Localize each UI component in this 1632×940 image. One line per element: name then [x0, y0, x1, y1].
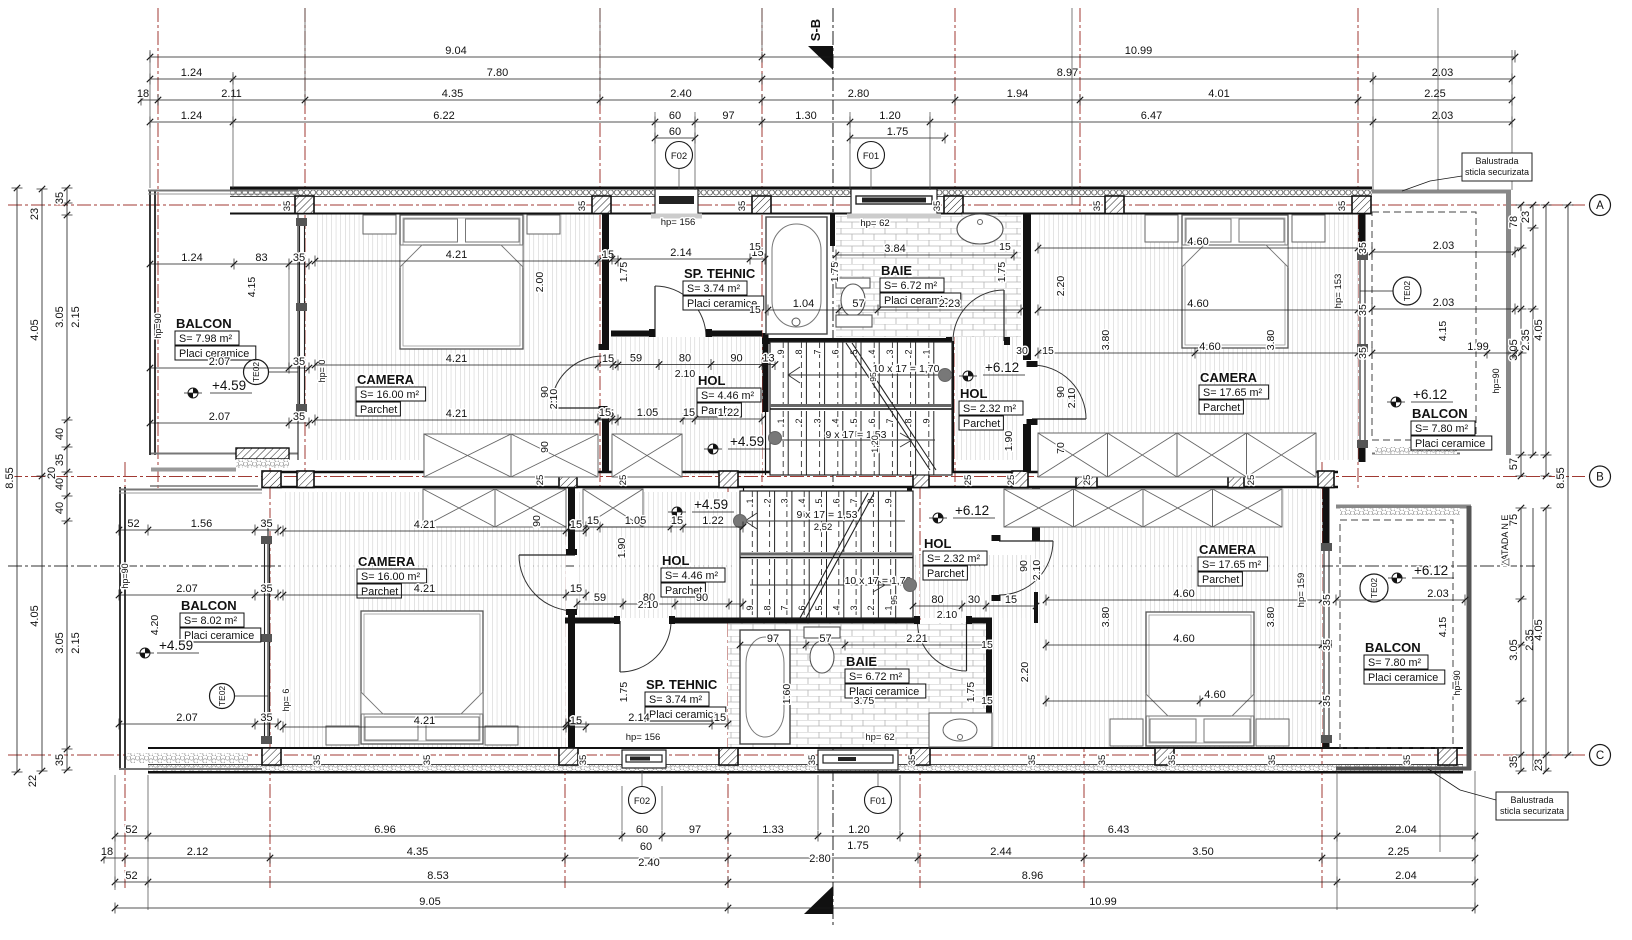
- svg-text:52: 52: [125, 824, 137, 836]
- dims hol lower: [586, 526, 743, 528]
- svg-text:6.43: 6.43: [1108, 824, 1129, 836]
- svg-text:2.44: 2.44: [990, 846, 1011, 858]
- svg-text:1.24: 1.24: [181, 67, 202, 79]
- svg-text:10 x 17 = 1,70: 10 x 17 = 1,70: [873, 363, 940, 375]
- svg-text:9 x 17 = 1,53: 9 x 17 = 1,53: [796, 509, 857, 521]
- svg-text:9: 9: [922, 418, 932, 423]
- floor baie lower (brick): [728, 623, 992, 748]
- wardrobe upper hol: [612, 434, 682, 477]
- svg-text:90: 90: [539, 441, 551, 453]
- svg-text:3.80: 3.80: [1265, 607, 1277, 628]
- svg-text:35: 35: [1321, 594, 1333, 606]
- svg-text:2.04: 2.04: [1395, 824, 1416, 836]
- svg-text:35: 35: [578, 755, 589, 766]
- svg-text:1: 1: [776, 418, 786, 423]
- svg-text:2.00: 2.00: [534, 272, 546, 293]
- svg-text:1.24: 1.24: [181, 252, 202, 264]
- floor hol lower: [577, 492, 740, 618]
- svg-text:2: 2: [794, 418, 804, 423]
- dims baie lower: [740, 644, 989, 646]
- svg-text:1.94: 1.94: [1007, 88, 1028, 100]
- svg-text:BALCON: BALCON: [176, 316, 232, 331]
- svg-text:Placi ceramice: Placi ceramice: [184, 630, 254, 642]
- svg-text:25: 25: [1082, 475, 1093, 486]
- door sp.tehnic lower: [619, 621, 621, 672]
- te02 circle upper-right: [1393, 277, 1421, 305]
- svg-text:22: 22: [27, 775, 39, 787]
- svg-text:2.03: 2.03: [1433, 240, 1454, 252]
- stair newel dots upper: [769, 432, 782, 445]
- svg-text:4.05: 4.05: [1533, 319, 1545, 340]
- elevation +4.59 lower-left: [145, 648, 150, 653]
- svg-text:1.05: 1.05: [637, 407, 658, 419]
- svg-text:1.20: 1.20: [879, 110, 900, 122]
- svg-text:2.10: 2.10: [1066, 388, 1078, 409]
- floor camera upper-right: [1038, 214, 1358, 460]
- svg-text:1,20: 1,20: [870, 435, 880, 453]
- svg-text:2: 2: [762, 498, 772, 503]
- svg-text:2.12: 2.12: [187, 846, 208, 858]
- svg-text:2.40: 2.40: [670, 88, 691, 100]
- svg-text:S-B: S-B: [808, 19, 823, 41]
- svg-text:1.30: 1.30: [795, 110, 816, 122]
- svg-text:4.15: 4.15: [246, 277, 258, 298]
- svg-text:S= 7.80 m²: S= 7.80 m²: [1415, 423, 1469, 435]
- axis line (facade) lower unit: [8, 565, 1535, 567]
- stair arrows upper: [788, 374, 948, 376]
- dims sp.tehnic lower: [566, 723, 728, 725]
- svg-text:4.20: 4.20: [149, 615, 161, 636]
- svg-text:hp= 6: hp= 6: [281, 689, 291, 712]
- wardrobes lower-left camera: [423, 489, 495, 527]
- svg-text:4.21: 4.21: [414, 519, 435, 531]
- elevation +4.59 upper hol: [713, 444, 718, 449]
- svg-text:15: 15: [683, 407, 695, 419]
- svg-text:B: B: [1596, 472, 1604, 484]
- svg-text:2.03: 2.03: [1433, 297, 1454, 309]
- svg-text:hp= 156: hp= 156: [661, 217, 696, 228]
- window wall balcony lower-left: [264, 540, 266, 742]
- svg-text:9: 9: [883, 498, 893, 503]
- svg-text:S= 6.72 m²: S= 6.72 m²: [884, 280, 938, 292]
- svg-text:3.80: 3.80: [1100, 330, 1112, 351]
- svg-text:1: 1: [883, 605, 893, 610]
- toilet upper: [836, 278, 870, 288]
- svg-text:30: 30: [968, 594, 980, 606]
- svg-text:+4.59: +4.59: [730, 434, 764, 449]
- svg-text:S= 6.72 m²: S= 6.72 m²: [849, 671, 903, 683]
- svg-text:SP. TEHNIC: SP. TEHNIC: [684, 266, 756, 281]
- svg-text:3: 3: [780, 498, 790, 503]
- svg-text:1.75: 1.75: [618, 682, 630, 703]
- svg-text:35: 35: [1027, 755, 1038, 766]
- svg-text:4.60: 4.60: [1187, 298, 1208, 310]
- grid line B: [8, 476, 1585, 478]
- elevation +4.59 upper-left: [193, 388, 198, 393]
- circle F02 bottom: [629, 787, 656, 814]
- svg-text:3: 3: [812, 418, 822, 423]
- svg-text:2.10: 2.10: [1031, 560, 1043, 581]
- svg-text:TE02: TE02: [1402, 281, 1412, 302]
- svg-text:7: 7: [780, 605, 790, 610]
- svg-text:35: 35: [293, 356, 305, 368]
- svg-text:4: 4: [867, 349, 877, 354]
- stair arrows lower: [745, 520, 905, 522]
- bed camera upper-right: [1182, 215, 1288, 348]
- sink upper: [957, 214, 1003, 244]
- svg-text:15: 15: [570, 715, 582, 727]
- svg-text:8.55: 8.55: [4, 467, 16, 488]
- svg-text:15: 15: [570, 583, 582, 595]
- svg-text:78: 78: [1508, 216, 1520, 228]
- svg-text:1.90: 1.90: [616, 538, 628, 559]
- grid line A: [8, 204, 1585, 206]
- window F01 bottom: [818, 750, 898, 770]
- elevation +6.12 upper: [968, 371, 973, 376]
- svg-text:25: 25: [618, 475, 629, 486]
- svg-text:2,52: 2,52: [814, 522, 833, 533]
- vertical grid lines (lower unit): [124, 462, 126, 888]
- svg-text:35: 35: [807, 755, 818, 766]
- svg-text:1.22: 1.22: [718, 407, 739, 419]
- svg-text:4.60: 4.60: [1199, 341, 1220, 353]
- svg-text:4.60: 4.60: [1173, 588, 1194, 600]
- svg-text:2.23: 2.23: [939, 298, 960, 310]
- svg-text:15: 15: [599, 407, 611, 419]
- svg-text:2.10: 2.10: [548, 389, 560, 410]
- dims camera lower-right: [1046, 599, 1322, 601]
- svg-text:2.20: 2.20: [1055, 276, 1067, 297]
- svg-text:15: 15: [570, 519, 582, 531]
- svg-text:3.84: 3.84: [884, 243, 905, 255]
- svg-text:4.15: 4.15: [1437, 321, 1449, 342]
- svg-text:2: 2: [903, 349, 913, 354]
- svg-text:97: 97: [767, 633, 779, 645]
- svg-text:35: 35: [260, 712, 272, 724]
- elevation +6.12 lower-right: [1397, 573, 1402, 578]
- svg-text:2.10: 2.10: [675, 368, 696, 380]
- svg-text:35: 35: [907, 755, 918, 766]
- door jamb blocks: [599, 344, 608, 350]
- svg-text:2.07: 2.07: [209, 411, 230, 423]
- svg-text:35: 35: [260, 518, 272, 530]
- dims hol upper: [613, 364, 775, 366]
- svg-text:15: 15: [749, 241, 761, 253]
- svg-text:3: 3: [885, 349, 895, 354]
- dims balcon lower-right: [1336, 599, 1465, 601]
- svg-text:6.47: 6.47: [1141, 110, 1162, 122]
- svg-text:4.35: 4.35: [442, 88, 463, 100]
- svg-text:35: 35: [54, 454, 66, 466]
- svg-text:80: 80: [679, 353, 691, 365]
- svg-text:+4.59: +4.59: [159, 638, 193, 653]
- floor camera lower-left: [283, 492, 566, 748]
- balustrada callout top-right: [1462, 153, 1532, 181]
- svg-text:2.14: 2.14: [670, 247, 691, 259]
- svg-text:F01: F01: [863, 151, 879, 162]
- stair newel dots lower: [734, 515, 747, 528]
- svg-text:2.20: 2.20: [1019, 662, 1031, 683]
- svg-text:9.05: 9.05: [419, 896, 440, 908]
- middle party wall: [262, 471, 1338, 474]
- svg-text:S= 7.80 m²: S= 7.80 m²: [1368, 657, 1422, 669]
- svg-text:7: 7: [812, 349, 822, 354]
- svg-text:TE02: TE02: [251, 362, 261, 383]
- svg-text:1.99: 1.99: [1467, 341, 1488, 353]
- svg-text:35: 35: [932, 201, 943, 212]
- window F02 bottom: [622, 750, 666, 768]
- floor hol upper: [611, 337, 762, 475]
- svg-text:S= 16.00 m²: S= 16.00 m²: [361, 571, 421, 583]
- svg-text:S= 2.32 m²: S= 2.32 m²: [963, 403, 1017, 415]
- svg-text:S= 17.65 m²: S= 17.65 m²: [1203, 387, 1263, 399]
- svg-text:59: 59: [630, 353, 642, 365]
- balcony upper-right walls: [1372, 190, 1511, 194]
- svg-text:4: 4: [832, 605, 842, 610]
- svg-text:35: 35: [312, 755, 323, 766]
- svg-text:+4.59: +4.59: [212, 378, 246, 393]
- svg-text:8: 8: [762, 605, 772, 610]
- svg-text:CAMERA: CAMERA: [1199, 542, 1257, 557]
- svg-text:S= 16.00 m²: S= 16.00 m²: [360, 389, 420, 401]
- svg-text:35: 35: [1357, 304, 1369, 316]
- svg-text:6.22: 6.22: [433, 110, 454, 122]
- svg-text:5: 5: [849, 418, 859, 423]
- top dimension chains: [150, 56, 1515, 58]
- svg-text:sticla securizata: sticla securizata: [1465, 167, 1529, 177]
- stairs upper unit: [770, 342, 952, 475]
- svg-text:4.60: 4.60: [1173, 633, 1194, 645]
- svg-text:4.21: 4.21: [446, 353, 467, 365]
- svg-text:35: 35: [293, 411, 305, 423]
- svg-text:3.05: 3.05: [54, 306, 66, 327]
- right dimension chains: [1520, 205, 1522, 476]
- svg-text:80: 80: [931, 594, 943, 606]
- svg-text:8.97: 8.97: [1057, 67, 1078, 79]
- door baie upper: [1003, 290, 1005, 341]
- svg-text:60: 60: [669, 126, 681, 138]
- bed camera lower-right: [1146, 612, 1254, 746]
- svg-text:35: 35: [54, 754, 66, 766]
- wardrobes upper-right camera: [1038, 433, 1108, 477]
- floor camera lower-right: [1032, 489, 1322, 748]
- svg-text:35: 35: [260, 583, 272, 595]
- svg-text:hp=90: hp=90: [1491, 368, 1501, 393]
- svg-text:3.05: 3.05: [1508, 639, 1520, 660]
- svg-text:3: 3: [849, 605, 859, 610]
- svg-text:4.21: 4.21: [414, 715, 435, 727]
- window wall balcony upper-left: [299, 218, 301, 412]
- elevation +4.59 lower hol: [677, 507, 682, 512]
- svg-text:18: 18: [101, 846, 113, 858]
- svg-text:9.04: 9.04: [445, 45, 466, 57]
- elevation +6.12 upper-right: [1396, 397, 1401, 402]
- svg-text:15: 15: [749, 304, 761, 316]
- svg-text:4.01: 4.01: [1208, 88, 1229, 100]
- interior walls upper unit: [602, 213, 609, 350]
- svg-text:F02: F02: [634, 796, 650, 807]
- dims camera upper-right: [1038, 247, 1358, 249]
- svg-text:2.80: 2.80: [848, 88, 869, 100]
- bottom exterior wall: [148, 771, 1463, 774]
- svg-text:35: 35: [1167, 755, 1178, 766]
- svg-text:1.22: 1.22: [702, 515, 723, 527]
- svg-text:15: 15: [1005, 594, 1017, 606]
- svg-text:35: 35: [577, 201, 588, 212]
- balcony lower-left walls: [119, 487, 121, 770]
- dims camera lower-left: [283, 530, 586, 532]
- dims balcon lower-left: [119, 529, 278, 531]
- door camera lower-left: [519, 554, 575, 556]
- balcony lower-right walls: [1336, 505, 1471, 509]
- door camera upper-right: [1032, 418, 1086, 420]
- svg-text:35: 35: [422, 755, 433, 766]
- svg-text:S= 17.65 m²: S= 17.65 m²: [1202, 559, 1262, 571]
- svg-text:90: 90: [730, 353, 742, 365]
- window wall camera lower-right: [1323, 546, 1325, 742]
- svg-text:F02: F02: [671, 151, 687, 162]
- svg-text:8.96: 8.96: [1022, 870, 1043, 882]
- svg-text:9: 9: [745, 605, 755, 610]
- svg-text:25: 25: [535, 475, 546, 486]
- sink lower: [929, 713, 992, 747]
- svg-text:S= 8.02 m²: S= 8.02 m²: [184, 615, 238, 627]
- floor hol lower-right: [913, 555, 1032, 618]
- door sp.tehnic upper: [654, 286, 656, 337]
- svg-text:35: 35: [1267, 755, 1278, 766]
- svg-text:1: 1: [922, 349, 932, 354]
- svg-text:Balustrada: Balustrada: [1510, 795, 1553, 805]
- svg-text:9: 9: [776, 349, 786, 354]
- svg-text:90: 90: [1018, 560, 1030, 572]
- svg-text:1.75: 1.75: [847, 840, 868, 852]
- svg-text:3.50: 3.50: [1192, 846, 1213, 858]
- svg-text:TE02: TE02: [1369, 578, 1379, 599]
- svg-text:97: 97: [689, 824, 701, 836]
- svg-text:2.11: 2.11: [221, 88, 242, 100]
- svg-text:2.25: 2.25: [1424, 88, 1445, 100]
- svg-text:8.53: 8.53: [427, 870, 448, 882]
- svg-text:S= 4.46 m²: S= 4.46 m²: [701, 390, 755, 402]
- svg-text:35: 35: [1092, 201, 1103, 212]
- svg-text:+6.12: +6.12: [1414, 563, 1448, 578]
- svg-text:1.75: 1.75: [996, 262, 1008, 283]
- svg-text:15: 15: [671, 515, 683, 527]
- svg-text:hp=90: hp=90: [120, 563, 130, 588]
- svg-text:15: 15: [1042, 345, 1054, 357]
- svg-text:Parchet: Parchet: [1202, 574, 1239, 586]
- svg-text:4: 4: [797, 498, 807, 503]
- svg-text:15: 15: [587, 515, 599, 527]
- svg-text:Placi ceramice: Placi ceramice: [687, 298, 757, 310]
- svg-text:hp= 153: hp= 153: [1333, 274, 1344, 309]
- svg-text:52: 52: [127, 518, 139, 530]
- circle F01 top: [858, 142, 885, 169]
- svg-text:4.35: 4.35: [407, 846, 428, 858]
- svg-text:1.75: 1.75: [887, 126, 908, 138]
- svg-text:hp=90: hp=90: [153, 313, 163, 338]
- toilet lower: [810, 641, 834, 673]
- svg-text:1.56: 1.56: [191, 518, 212, 530]
- top exterior wall: [230, 187, 1372, 190]
- svg-text:A: A: [1596, 200, 1604, 212]
- svg-text:1.05: 1.05: [625, 515, 646, 527]
- svg-text:BAIE: BAIE: [846, 654, 877, 669]
- svg-text:2.35: 2.35: [1520, 329, 1532, 350]
- svg-text:BALCON: BALCON: [1412, 406, 1468, 421]
- svg-text:HOL: HOL: [698, 373, 726, 388]
- svg-text:35: 35: [1357, 242, 1369, 254]
- svg-text:60: 60: [640, 841, 652, 853]
- svg-text:1.75: 1.75: [829, 262, 841, 283]
- columns bottom wall: [262, 748, 281, 765]
- circle F02 top: [666, 142, 693, 169]
- svg-text:2.21: 2.21: [906, 633, 927, 645]
- svg-text:HOL: HOL: [960, 386, 988, 401]
- svg-text:hp= 156: hp= 156: [626, 732, 661, 743]
- svg-text:BAIE: BAIE: [881, 263, 912, 278]
- te02 circle upper-left: [244, 360, 269, 385]
- svg-text:2.15: 2.15: [70, 632, 82, 653]
- svg-text:4.05: 4.05: [29, 605, 41, 626]
- svg-text:3.75: 3.75: [854, 695, 875, 707]
- svg-text:90: 90: [531, 515, 543, 527]
- svg-text:59: 59: [594, 592, 606, 604]
- svg-text:△: △: [1500, 558, 1511, 566]
- svg-text:2.15: 2.15: [70, 306, 82, 327]
- svg-text:6.96: 6.96: [374, 824, 395, 836]
- svg-text:2.03: 2.03: [1427, 588, 1448, 600]
- svg-text:60: 60: [636, 824, 648, 836]
- svg-text:1.04: 1.04: [793, 298, 814, 310]
- svg-text:60: 60: [669, 110, 681, 122]
- svg-text:6: 6: [867, 418, 877, 423]
- svg-text:35: 35: [1357, 347, 1369, 359]
- svg-text:Placi ceramice: Placi ceramice: [649, 709, 719, 721]
- svg-text:1.20: 1.20: [848, 824, 869, 836]
- svg-text:35: 35: [1097, 755, 1108, 766]
- svg-text:Parchet: Parchet: [1203, 402, 1240, 414]
- svg-text:35: 35: [1402, 755, 1413, 766]
- elevation +6.12 lower: [938, 513, 943, 518]
- svg-text:8.55: 8.55: [1555, 467, 1567, 488]
- wardrobes upper-left camera: [424, 434, 511, 477]
- svg-text:4.05: 4.05: [1533, 619, 1545, 640]
- svg-text:3.80: 3.80: [1265, 330, 1277, 351]
- svg-text:C: C: [1596, 750, 1604, 762]
- svg-text:+6.12: +6.12: [985, 360, 1019, 375]
- svg-text:SP. TEHNIC: SP. TEHNIC: [646, 677, 718, 692]
- svg-text:1.75: 1.75: [618, 262, 630, 283]
- svg-text:1.24: 1.24: [181, 110, 202, 122]
- svg-text:3.80: 3.80: [1100, 607, 1112, 628]
- svg-text:hp= 62: hp= 62: [860, 218, 889, 229]
- svg-text:70: 70: [1055, 442, 1067, 454]
- svg-text:4.05: 4.05: [29, 319, 41, 340]
- svg-text:2: 2: [866, 605, 876, 610]
- bed camera upper-left: [400, 215, 523, 349]
- svg-text:10 x 17 = 1,70: 10 x 17 = 1,70: [845, 575, 912, 587]
- svg-text:4.21: 4.21: [414, 583, 435, 595]
- svg-text:1.75: 1.75: [965, 682, 977, 703]
- columns middle wall: [262, 471, 281, 488]
- floor passage lower-right: [992, 555, 1032, 748]
- columns top wall: [295, 196, 314, 214]
- svg-text:4.60: 4.60: [1187, 236, 1208, 248]
- door camera upper-left: [551, 407, 603, 409]
- svg-text:2.07: 2.07: [176, 583, 197, 595]
- svg-text:2.07: 2.07: [209, 356, 230, 368]
